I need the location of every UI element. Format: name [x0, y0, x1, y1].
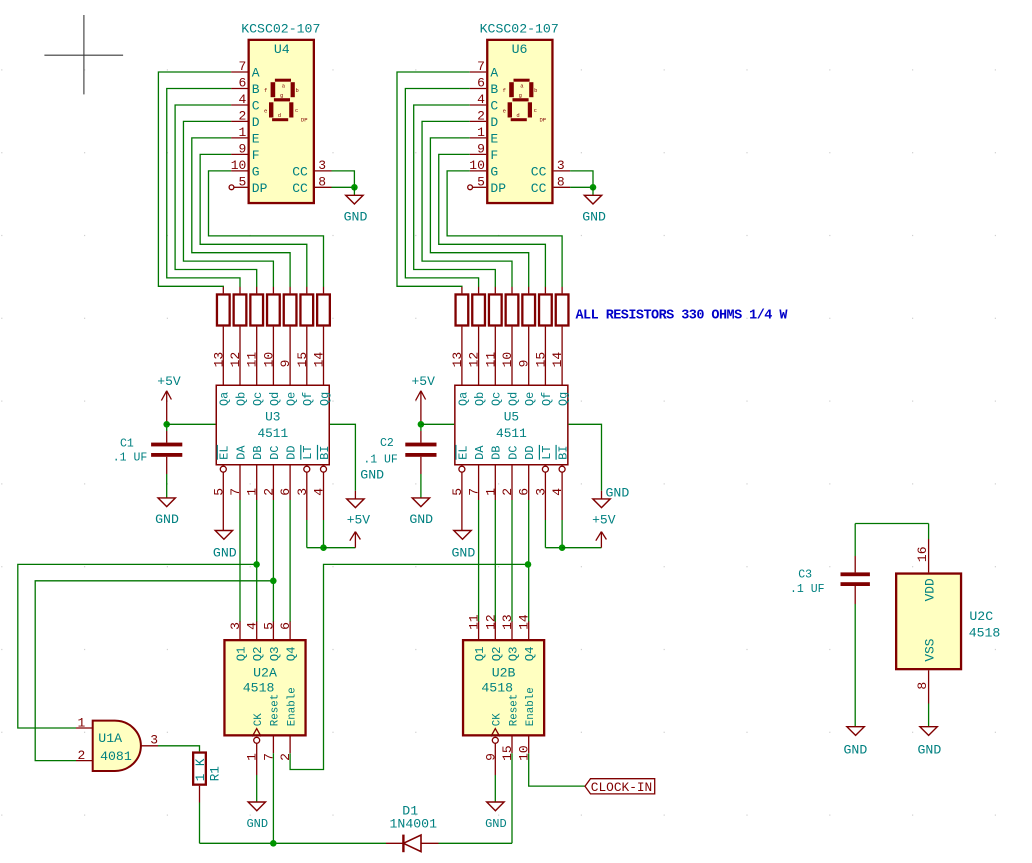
svg-text:10: 10	[517, 745, 532, 761]
svg-text:U6: U6	[512, 42, 528, 57]
svg-text:U3: U3	[265, 410, 280, 425]
svg-text:1 K: 1 K	[194, 758, 208, 781]
svg-text:CLOCK-IN: CLOCK-IN	[591, 780, 652, 795]
svg-text:.1 UF: .1 UF	[363, 454, 398, 467]
svg-text:3: 3	[150, 733, 158, 748]
svg-text:4: 4	[245, 622, 260, 630]
svg-text:KCSC02-107: KCSC02-107	[480, 22, 559, 37]
svg-text:4518: 4518	[969, 626, 1001, 641]
svg-text:KCSC02-107: KCSC02-107	[241, 22, 320, 37]
svg-text:C1: C1	[120, 438, 134, 451]
svg-text:.1 UF: .1 UF	[113, 452, 148, 465]
svg-text:U1A: U1A	[98, 731, 122, 746]
svg-text:6: 6	[278, 622, 293, 630]
svg-text:1N4001: 1N4001	[390, 817, 438, 832]
svg-text:7: 7	[261, 753, 276, 761]
svg-text:15: 15	[500, 745, 515, 761]
svg-text:5: 5	[261, 622, 276, 630]
svg-text:13: 13	[500, 614, 515, 630]
svg-text:+5V: +5V	[592, 513, 616, 528]
svg-text:+5V: +5V	[347, 512, 371, 527]
svg-text:C3: C3	[798, 569, 812, 582]
svg-text:R1: R1	[208, 766, 222, 781]
svg-text:ALL RESISTORS 330 OHMS 1/4 W: ALL RESISTORS 330 OHMS 1/4 W	[576, 308, 789, 323]
svg-text:1: 1	[245, 753, 260, 761]
svg-text:14: 14	[517, 614, 532, 630]
svg-text:U5: U5	[504, 410, 519, 425]
svg-text:C2: C2	[380, 437, 394, 450]
svg-text:GND: GND	[360, 467, 384, 482]
svg-text:16: 16	[915, 546, 930, 562]
svg-text:9: 9	[483, 753, 498, 761]
svg-text:GND: GND	[409, 512, 433, 527]
svg-text:.1 UF: .1 UF	[790, 583, 825, 596]
svg-text:U2A: U2A	[253, 666, 277, 681]
svg-text:U4: U4	[274, 42, 290, 57]
svg-text:4081: 4081	[100, 749, 132, 764]
svg-text:U2C: U2C	[969, 609, 993, 624]
svg-text:+5V: +5V	[157, 374, 181, 389]
svg-text:GND: GND	[844, 743, 868, 758]
svg-text:2: 2	[77, 748, 85, 763]
svg-text:GND: GND	[918, 743, 942, 758]
svg-text:8: 8	[915, 682, 930, 690]
svg-text:VDD: VDD	[922, 578, 937, 601]
svg-text:11: 11	[467, 614, 482, 630]
svg-text:3: 3	[228, 622, 243, 630]
svg-text:+5V: +5V	[411, 374, 435, 389]
svg-text:2: 2	[278, 753, 293, 761]
svg-text:U2B: U2B	[492, 666, 516, 681]
svg-text:GND: GND	[155, 512, 179, 527]
svg-text:GND: GND	[606, 486, 630, 501]
svg-text:VSS: VSS	[922, 638, 937, 661]
svg-text:12: 12	[483, 614, 498, 630]
svg-text:1: 1	[77, 715, 85, 730]
